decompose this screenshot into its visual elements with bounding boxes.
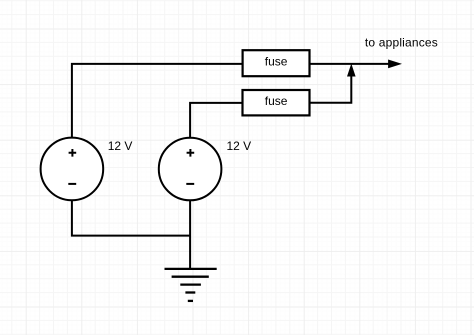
svg-text:to appliances: to appliances <box>365 35 438 49</box>
label: 12 V (V2) <box>227 139 252 153</box>
wire from V2 negative terminal down to ground <box>189 200 191 269</box>
fuse F1 <box>243 50 310 76</box>
ground <box>165 269 217 301</box>
fuse F2 <box>243 90 310 115</box>
wire from V2 positive terminal up and right to fuse F2 <box>190 103 242 138</box>
label: 12 V (V1) <box>108 139 133 153</box>
svg-text:12 V: 12 V <box>108 139 133 153</box>
wire from V1 negative terminal down and right to junction <box>72 200 190 235</box>
svg-text:12 V: 12 V <box>227 139 252 153</box>
voltage source V2 (12 V battery) <box>159 138 222 201</box>
label: to appliances <box>365 35 438 49</box>
wire from fuse F1 to appliances with arrowhead <box>310 60 401 67</box>
wire from fuse F2 right and up to main line with arrowhead <box>310 65 355 103</box>
voltage source V1 (12 V battery) <box>41 138 104 201</box>
svg-text:fuse: fuse <box>265 55 288 69</box>
svg-text:fuse: fuse <box>265 94 288 108</box>
wire from V1 positive terminal up and right to fuse F1 <box>72 64 243 138</box>
